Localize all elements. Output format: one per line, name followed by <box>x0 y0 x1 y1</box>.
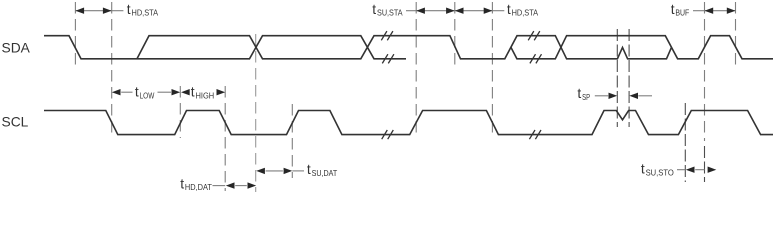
dashed reference line at SCL rise 3 (t_SU,DAT right) <box>291 104 293 178</box>
dimension t_SU,STA: leader, line, outward arrowheads <box>406 8 455 14</box>
dashed reference line at SDA repeated START fall (t_SU,STA right / t_HD,STA2 left) <box>454 2 456 65</box>
svg-text:SU,DAT: SU,DAT <box>312 168 338 178</box>
dimension t_SP: inward arrows at spike reference lines <box>595 93 652 99</box>
break marks on SDA top line (first) <box>381 31 393 40</box>
break marks on SDA bottom line (second) <box>530 54 542 63</box>
dashed reference line at SDA STOP rise lower segment (t_SU,STO right) <box>704 146 706 182</box>
break marks on SCL low line (second) <box>529 130 541 139</box>
dashed reference line at SCL rise 1 (t_LOW right / t_HIGH left) <box>179 86 181 138</box>
svg-text:t: t <box>577 86 581 101</box>
wire SDA trace: start high, START fall, bottom envelope line to crossover 1, top line to crossover 2, bottom stub <box>44 36 406 59</box>
dashed reference line at spike start (t_SP left) <box>616 29 618 127</box>
svg-text:t: t <box>641 162 645 177</box>
dashed reference line at SDA fall after STOP (t_BUF right) <box>735 2 737 65</box>
svg-text:HIGH: HIGH <box>196 90 215 100</box>
dimension t_BUF: leader, line, outward arrowheads <box>693 8 736 14</box>
svg-text:SP: SP <box>582 92 590 102</box>
svg-text:SU,STO: SU,STO <box>646 167 675 177</box>
svg-text:t: t <box>372 2 376 17</box>
svg-text:t: t <box>180 176 184 191</box>
break marks on SDA bottom line (first) <box>382 54 394 63</box>
dimension t_SU,DAT: outward arrowheads, leader to label <box>256 168 304 174</box>
dashed reference line at SCL fall 2 (t_HIGH right / t_HD,DAT left) <box>224 86 226 191</box>
svg-text:SCL: SCL <box>2 115 29 130</box>
svg-text:SDA: SDA <box>2 41 31 56</box>
svg-text:t: t <box>307 162 311 177</box>
dashed reference line at SCL fall 5 (t_HD,STA2 right) <box>491 2 493 138</box>
svg-text:LOW: LOW <box>140 90 155 100</box>
svg-text:BUF: BUF <box>675 8 689 18</box>
dashed reference line at SDA STOP rise (t_SU,STO right / t_BUF left) <box>704 2 706 141</box>
dashed reference line at spike end (t_SP right) <box>628 29 630 127</box>
dimension t_HIGH: outward arrowheads tight to label <box>181 89 225 95</box>
dashed reference line at SCL rise 4 (t_SU,STA left) <box>415 2 417 138</box>
svg-text:t: t <box>135 85 139 100</box>
dashed reference line at SDA crossover (t_HD,DAT right / t_SU,DAT left) <box>255 34 257 192</box>
dashed reference line at SCL rise before STOP (t_SU,STO left) <box>684 103 686 182</box>
svg-text:t: t <box>127 2 131 17</box>
dashed reference line at SCL fall 1 (t_HD,STA right / t_LOW left) <box>111 2 113 138</box>
dashed reference line at SDA START fall (t_HD,STA left) <box>74 2 76 65</box>
dimension t_HD,STA second: line, outward arrowheads, leader <box>455 8 505 14</box>
wire SDA trace: data rise, envelope top/bottom through crossovers, repeated START fall, low, envelope open rise, top to crossover 3, bottom line with spike, envelope close <box>137 36 672 59</box>
svg-text:HD,DAT: HD,DAT <box>185 182 212 192</box>
break marks on SDA top line (second) <box>528 31 540 40</box>
svg-text:t: t <box>507 2 511 17</box>
dimension t_SU,STO: leader, left arrowhead inside, right arrowhead outside <box>677 167 716 173</box>
dimension t_HD,STA first: line, outward arrowheads, leader <box>75 8 123 14</box>
break marks on SCL low line (first) <box>382 130 394 139</box>
svg-text:HD,STA: HD,STA <box>132 8 159 18</box>
wire SDA envelope-open bottom branch, bottom to crossover 3, top line, close fall, low, STOP rise, high, next START fall, low <box>511 36 773 59</box>
wire SCL trace full clock waveform with spike notch <box>44 111 773 135</box>
svg-text:HD,STA: HD,STA <box>512 8 539 18</box>
dimension t_LOW: outward arrowheads with label between <box>112 89 180 95</box>
svg-text:t: t <box>671 2 675 17</box>
svg-text:SU,STA: SU,STA <box>377 8 403 18</box>
dimension t_HD,DAT: leader, outward arrowheads <box>213 182 257 188</box>
svg-text:t: t <box>191 85 195 100</box>
